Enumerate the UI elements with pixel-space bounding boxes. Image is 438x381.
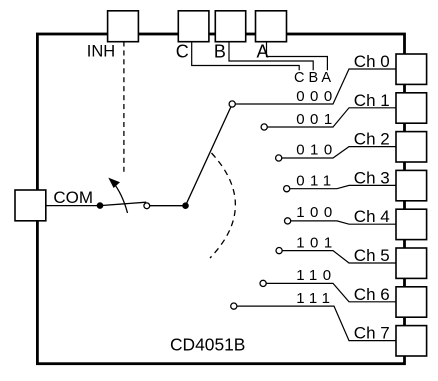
svg-text:Ch 5: Ch 5 — [354, 246, 390, 265]
pin box Ch7 — [396, 326, 427, 356]
pin box Ch0 — [396, 54, 427, 84]
junction dot: COM pole — [97, 202, 104, 209]
svg-text:001: 001 — [296, 111, 338, 128]
svg-text:Ch 4: Ch 4 — [354, 207, 390, 226]
wire channel 4: contact to pin Ch4 — [288, 221, 396, 224]
pin box A — [256, 11, 287, 42]
wire channel 5: contact to pin Ch5 — [279, 251, 396, 263]
svg-text:101: 101 — [296, 235, 338, 252]
chip body outline U1 CD4051B — [37, 34, 404, 364]
contact node channel 6 — [260, 280, 266, 286]
wire INH control (dashed) from pin INH down to wiper arrow — [123, 42, 125, 172]
wiper rotation arc with arrowhead — [113, 182, 128, 214]
svg-text:A: A — [257, 42, 269, 62]
wire channel 7: contact to pin Ch7 — [234, 306, 396, 341]
svg-text:Ch 1: Ch 1 — [354, 91, 390, 110]
svg-text:C B A: C B A — [294, 70, 331, 86]
selector travel arc (dashed) — [210, 153, 235, 258]
pin box Ch5 — [396, 248, 427, 278]
svg-text:Ch 7: Ch 7 — [354, 324, 390, 343]
svg-text:100: 100 — [296, 204, 338, 221]
svg-text:Ch 6: Ch 6 — [354, 285, 390, 304]
wire C control: from pin C down and right to node above letter C — [192, 42, 300, 71]
pin box Ch1 — [396, 93, 427, 123]
contact node channel 1 — [261, 124, 267, 130]
svg-text:Ch 0: Ch 0 — [354, 52, 390, 71]
svg-text:110: 110 — [296, 267, 336, 284]
wiper rotation arrowhead — [108, 178, 120, 188]
pin box COM — [15, 190, 46, 221]
pin box INH — [108, 11, 139, 42]
pin box Ch6 — [396, 287, 427, 317]
svg-text:COM: COM — [53, 188, 93, 207]
contact node channel 7 — [231, 303, 237, 309]
svg-text:Ch 2: Ch 2 — [354, 130, 390, 149]
pin box Ch2 — [396, 132, 427, 162]
wire from first contact to selector pivot — [147, 205, 186, 207]
svg-text:CD4051B: CD4051B — [170, 335, 245, 355]
wire B control: from pin B down and right to node above letter B — [229, 42, 313, 71]
pin box B — [215, 11, 245, 42]
open contact at wiper tip — [144, 203, 150, 209]
selector lever: pivot to Ch0 contact — [186, 104, 233, 206]
svg-text:000: 000 — [296, 88, 338, 105]
wire COM: from COM pin to pole junction — [46, 205, 100, 207]
svg-text:INH: INH — [87, 43, 115, 61]
svg-text:011: 011 — [296, 173, 336, 190]
svg-text:010: 010 — [296, 142, 338, 159]
contact node channel 5 — [276, 248, 282, 254]
wire channel 2: contact to pin Ch2 — [279, 147, 396, 158]
contact node channel 0 — [229, 101, 235, 107]
contact node channel 3 — [284, 186, 290, 192]
svg-text:Ch 3: Ch 3 — [354, 168, 390, 187]
pin box Ch4 — [396, 209, 427, 239]
wire channel 1: contact to pin Ch1 — [264, 108, 396, 127]
contact node channel 2 — [276, 155, 282, 161]
wire channel 3: contact to pin Ch3 — [287, 185, 396, 188]
pin box C — [178, 11, 209, 42]
switch wiper lever (pole) from COM junction — [100, 202, 146, 205]
junction dot: selector pivot — [182, 202, 189, 209]
wire channel 0: contact to pin Ch0 — [232, 69, 396, 104]
pin box Ch3 — [396, 170, 427, 200]
wire A control: from pin A down and right to node above letter A — [267, 42, 328, 71]
svg-text:111: 111 — [296, 290, 335, 307]
svg-text:B: B — [214, 42, 226, 62]
wire channel 6: contact to pin Ch6 — [263, 283, 396, 301]
contact node channel 4 — [285, 218, 291, 224]
svg-text:C: C — [176, 42, 189, 62]
